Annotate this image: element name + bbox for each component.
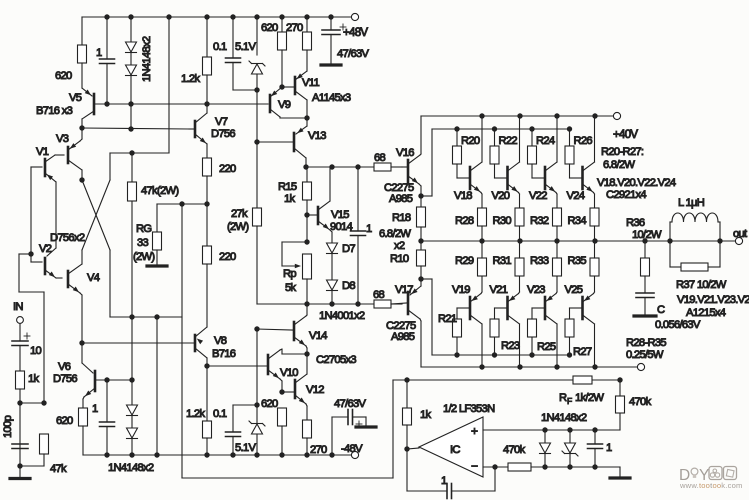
svg-text:D7: D7 <box>342 243 355 255</box>
svg-text:0.25/5W: 0.25/5W <box>626 349 664 361</box>
svg-text:R27: R27 <box>573 346 592 358</box>
svg-text:47/63V: 47/63V <box>337 48 369 60</box>
svg-text:R33: R33 <box>530 255 549 267</box>
svg-text:V8: V8 <box>214 335 227 347</box>
svg-text:−: − <box>471 459 478 473</box>
svg-text:0.056/63V: 0.056/63V <box>655 319 701 331</box>
svg-text:1: 1 <box>96 47 102 59</box>
svg-text:5k: 5k <box>285 282 297 294</box>
svg-text:V10: V10 <box>280 367 298 379</box>
svg-text:V14: V14 <box>309 330 327 342</box>
svg-text:5.1V: 5.1V <box>235 41 256 53</box>
svg-text:V3: V3 <box>56 133 69 145</box>
svg-text:V17: V17 <box>395 284 413 296</box>
svg-text:47k: 47k <box>50 463 67 475</box>
svg-text:F: F <box>567 396 572 406</box>
svg-text:100p: 100p <box>2 415 14 438</box>
svg-text:RG: RG <box>136 223 151 235</box>
svg-text:A985: A985 <box>391 331 415 343</box>
svg-text:x2: x2 <box>394 240 405 252</box>
svg-text:1N4148x2: 1N4148x2 <box>541 412 587 424</box>
svg-text:0.1: 0.1 <box>213 408 227 420</box>
svg-text:+: + <box>471 424 478 438</box>
svg-text:C: C <box>657 304 665 316</box>
svg-text:V6: V6 <box>58 361 71 373</box>
svg-text:R15: R15 <box>278 181 297 193</box>
svg-text:D756x2: D756x2 <box>50 232 85 244</box>
svg-text:6.8/2W: 6.8/2W <box>603 159 635 171</box>
svg-text:V19: V19 <box>452 284 470 296</box>
svg-text:V5: V5 <box>69 92 82 104</box>
svg-text:V12: V12 <box>306 384 324 396</box>
svg-text:Rp: Rp <box>283 268 296 280</box>
svg-text:1: 1 <box>441 475 447 487</box>
svg-text:V18: V18 <box>454 190 472 202</box>
svg-text:R31: R31 <box>493 255 512 267</box>
svg-text:R10: R10 <box>390 253 409 265</box>
svg-text:1N4148x2: 1N4148x2 <box>108 462 154 474</box>
svg-text:33: 33 <box>137 237 149 249</box>
svg-text:(2W): (2W) <box>227 221 249 233</box>
svg-text:27k: 27k <box>231 208 248 220</box>
svg-text:1: 1 <box>606 442 612 454</box>
svg-text:R34: R34 <box>568 215 587 227</box>
svg-text:V18.V20.V22.V24: V18.V20.V22.V24 <box>597 177 676 189</box>
svg-text:(2W): (2W) <box>133 251 155 263</box>
svg-text:R32: R32 <box>530 215 549 227</box>
svg-text:1k: 1k <box>284 193 296 205</box>
svg-text:1k: 1k <box>420 409 432 421</box>
svg-text:R36: R36 <box>626 217 645 229</box>
svg-text:A985: A985 <box>389 193 413 205</box>
svg-text:V25: V25 <box>565 284 583 296</box>
svg-text:68: 68 <box>374 152 386 164</box>
svg-text:620: 620 <box>261 22 278 34</box>
svg-text:V2: V2 <box>39 243 52 255</box>
svg-text:1/2 LF353N: 1/2 LF353N <box>443 403 495 415</box>
svg-text:V4: V4 <box>87 272 100 284</box>
svg-text:V22: V22 <box>529 190 547 202</box>
svg-text:9014: 9014 <box>330 221 353 233</box>
svg-text:R25: R25 <box>537 341 556 353</box>
svg-text:V9: V9 <box>278 99 291 111</box>
svg-text:R24: R24 <box>536 135 555 147</box>
svg-text:1.2k: 1.2k <box>186 408 205 420</box>
svg-text:470k: 470k <box>503 444 526 456</box>
svg-text:IC: IC <box>450 444 460 456</box>
svg-text:B716 x3: B716 x3 <box>36 105 73 117</box>
svg-text:R21: R21 <box>438 313 457 325</box>
svg-text:470k: 470k <box>629 396 652 408</box>
svg-text:V20: V20 <box>492 190 510 202</box>
svg-text:D8: D8 <box>342 280 355 292</box>
svg-text:220: 220 <box>219 163 236 175</box>
svg-text:R: R <box>559 392 567 404</box>
svg-text:R23: R23 <box>501 340 520 352</box>
svg-text:R35: R35 <box>568 255 587 267</box>
svg-text:10: 10 <box>30 345 42 357</box>
svg-text:C2921x4: C2921x4 <box>606 189 646 201</box>
svg-text:+48V: +48V <box>343 27 368 39</box>
svg-text:R28: R28 <box>455 215 474 227</box>
svg-text:620: 620 <box>56 415 73 427</box>
svg-text:270: 270 <box>310 444 327 456</box>
svg-text:+40V: +40V <box>613 129 638 141</box>
svg-text:R20: R20 <box>461 135 480 147</box>
svg-text:0.1: 0.1 <box>213 41 227 53</box>
svg-text:R22: R22 <box>499 135 518 147</box>
svg-text:R37 10/2W: R37 10/2W <box>676 279 727 291</box>
svg-text:R18: R18 <box>392 212 411 224</box>
svg-text:-48V: -48V <box>341 443 363 455</box>
svg-text:IN: IN <box>13 301 23 313</box>
svg-text:R30: R30 <box>493 215 512 227</box>
svg-text:V1: V1 <box>36 146 49 158</box>
svg-text:V13: V13 <box>308 130 326 142</box>
svg-text:V7: V7 <box>215 116 228 128</box>
svg-text:www.tootook.com: www.tootook.com <box>679 481 743 490</box>
svg-text:68: 68 <box>373 289 385 301</box>
svg-text:5.1V: 5.1V <box>235 442 256 454</box>
svg-text:270: 270 <box>286 22 303 34</box>
svg-text:R20-R27:: R20-R27: <box>601 146 644 158</box>
svg-text:L 1μH: L 1μH <box>678 197 705 209</box>
svg-text:V23: V23 <box>527 284 545 296</box>
svg-text:C2705x3: C2705x3 <box>316 354 356 366</box>
svg-text:V11: V11 <box>302 77 319 89</box>
svg-text:out: out <box>733 228 748 240</box>
svg-text:A1215x4: A1215x4 <box>686 307 726 319</box>
svg-text:D756: D756 <box>211 128 235 140</box>
svg-text:R28-R35: R28-R35 <box>626 337 666 349</box>
svg-text:B716: B716 <box>212 348 236 360</box>
svg-text:620: 620 <box>261 398 278 410</box>
svg-text:V16: V16 <box>396 147 414 159</box>
svg-text:V24: V24 <box>567 190 585 202</box>
svg-text:1k/2W: 1k/2W <box>575 392 604 404</box>
svg-text:V21: V21 <box>490 284 508 296</box>
svg-text:1: 1 <box>92 403 98 415</box>
svg-text:1.2k: 1.2k <box>181 73 200 85</box>
svg-text:6.8/2W: 6.8/2W <box>379 228 411 240</box>
svg-text:V19.V21.V23.V25: V19.V21.V23.V25 <box>677 294 749 306</box>
svg-text:10/2W: 10/2W <box>632 229 662 241</box>
svg-text:D756: D756 <box>53 373 77 385</box>
svg-text:1: 1 <box>366 223 372 235</box>
svg-text:R29: R29 <box>455 255 474 267</box>
svg-text:47k(2W): 47k(2W) <box>141 185 179 197</box>
svg-text:220: 220 <box>219 251 236 263</box>
svg-text:R26: R26 <box>574 135 593 147</box>
svg-text:A1145x3: A1145x3 <box>312 92 351 104</box>
svg-text:620: 620 <box>55 70 72 82</box>
svg-text:47/63V: 47/63V <box>334 398 366 410</box>
svg-text:1k: 1k <box>28 373 40 385</box>
svg-text:1N4001x2: 1N4001x2 <box>319 310 365 322</box>
svg-text:V15: V15 <box>331 209 349 221</box>
svg-text:1N4148x2: 1N4148x2 <box>141 36 153 82</box>
